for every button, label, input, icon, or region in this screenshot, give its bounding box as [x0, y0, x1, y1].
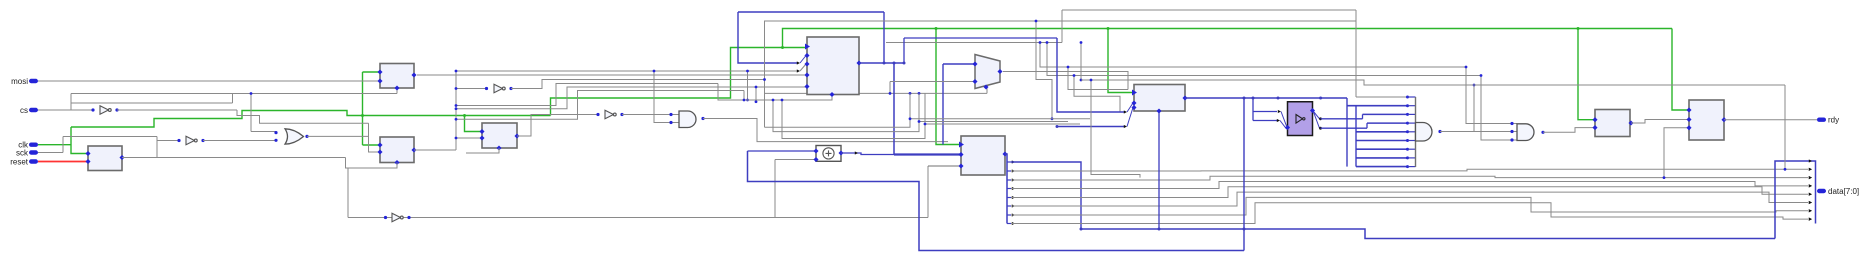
wire G4 out — [1541, 128, 1595, 134]
input port cs — [20, 106, 38, 115]
wire G4 in3 — [1480, 74, 1517, 140]
wire U1 out — [122, 157, 346, 159]
wire A1 out — [841, 151, 894, 154]
and-gate G3 — [1416, 123, 1433, 142]
wire top y21 — [763, 21, 1356, 81]
wire run y105.5 staircase — [455, 84, 718, 107]
dff U7 — [1131, 85, 1187, 114]
wire data row5 — [1011, 192, 1812, 206]
wire U4 pin2 feed — [455, 137, 482, 140]
dff U6 — [958, 136, 1007, 175]
wire G1 in1 drop — [250, 92, 253, 131]
wire U5 pin5 feed — [755, 86, 758, 104]
wire U6 out bus — [1005, 154, 1007, 224]
wire cs-up run y93.5 — [71, 93, 397, 95]
wire P1 out1 — [1314, 112, 1408, 121]
svg-text:data[7:0]: data[7:0] — [1828, 187, 1859, 196]
wire U7 out blue — [1185, 97, 1347, 100]
wire fan left bus — [1355, 106, 1357, 167]
wire U5 out blue — [738, 12, 961, 155]
wire U3 out — [414, 71, 456, 150]
wire net cs to inverter — [38, 94, 93, 111]
wire U8 out — [1631, 120, 1689, 124]
and-gate G4 — [1510, 122, 1534, 142]
wire U5 pin3 arrow — [797, 64, 806, 73]
buffer P1 — [1285, 102, 1315, 136]
wire top y42.5 — [886, 42, 1062, 44]
wire blue x1244 drop — [1243, 97, 1246, 251]
wire U9 in3 — [1663, 128, 1689, 179]
wire U7 blue in2 — [1056, 108, 1134, 129]
wire bottom up to U6 — [927, 166, 929, 218]
wire run y80-y85 — [1080, 41, 1785, 85]
input port mosi — [11, 77, 38, 86]
wire U4 en — [466, 148, 499, 153]
dff U3 — [377, 137, 416, 165]
wire data row7 — [1011, 203, 1812, 224]
wire maze x1074 — [1073, 74, 1120, 112]
wire fan row y105.7 blue — [1347, 98, 1408, 167]
svg-text:cs: cs — [20, 106, 28, 115]
inverter I5 — [384, 213, 411, 221]
wire A1 in1 blue — [748, 150, 817, 152]
dff U2 — [377, 64, 416, 91]
wire long bottom run — [348, 217, 928, 219]
wire blue loop — [748, 151, 1245, 251]
wire U9 out to rdy — [1724, 119, 1817, 121]
wire fan row y97 — [1356, 96, 1409, 99]
wire y85 drop — [1784, 85, 1787, 171]
wire maze x1040 — [1039, 41, 1466, 67]
wire top y10 — [1062, 10, 1356, 43]
wire A1 in2 — [775, 160, 816, 218]
wire data row1 — [1011, 168, 1812, 171]
svg-text:mosi: mosi — [11, 77, 28, 86]
output port data[7:0] — [1817, 187, 1859, 196]
wire M1 in1 blue — [943, 64, 975, 145]
wire y85 west drop — [1090, 79, 1140, 178]
wire top drop x1356 — [1355, 10, 1357, 97]
wire branch h103 — [71, 94, 233, 104]
svg-text:reset: reset — [10, 158, 29, 167]
wire G4 x1474 — [1473, 84, 1476, 132]
wire run y119.25 staircase — [455, 91, 744, 121]
wire U2 en drop — [396, 88, 398, 94]
wire G1 out jog — [369, 123, 381, 152]
wire maze x1047 — [1046, 41, 1481, 75]
wire G4 in1 — [1465, 66, 1517, 124]
wire collector arrows — [1809, 159, 1812, 220]
wire G1 out — [305, 135, 368, 138]
wire blue y229 — [1082, 229, 1775, 239]
wire U5 D blue feed — [738, 12, 806, 65]
wire data row0 blue — [1011, 162, 1083, 231]
wire fan rows blue — [1356, 97, 1416, 168]
wire G2 in2 — [653, 70, 679, 123]
inverter I2 — [177, 136, 204, 144]
svg-text:rdy: rdy — [1828, 116, 1839, 125]
input port sck — [16, 149, 38, 158]
wire blue collector — [1775, 161, 1816, 239]
wire G2out-y71 link — [746, 70, 749, 102]
wire I3 out jog — [511, 80, 987, 95]
wire I2 out — [203, 140, 276, 142]
wire M1 in2 — [889, 82, 975, 95]
wire maze x1068 — [1067, 66, 1128, 90]
wire sck h136 — [63, 136, 157, 138]
wire data row4 — [1011, 187, 1812, 198]
register U5 — [804, 37, 861, 97]
wire U4 out — [517, 115, 598, 137]
wire data row2 — [1011, 176, 1812, 180]
wire maze y121.5 — [772, 93, 1068, 131]
wire net clk (green) — [38, 27, 1689, 154]
or-gate G1 — [285, 129, 304, 144]
wire U2 out run — [417, 74, 807, 76]
mux M1 — [972, 55, 1002, 90]
wire net mosi — [38, 80, 380, 82]
wire U6 en feed — [928, 165, 961, 167]
dff U4 — [479, 123, 519, 151]
wire P1 in feeds — [1253, 98, 1287, 129]
wire maze y124 — [781, 93, 1080, 138]
register U9 — [1686, 100, 1726, 140]
wire U7 blue in1 — [1057, 38, 1133, 114]
dff U8 — [1592, 110, 1633, 137]
wire reset to U1 (red) — [38, 161, 88, 163]
and-gate G3 bar — [1415, 97, 1417, 167]
wire P1 out2 — [1314, 112, 1408, 130]
wire run y71 — [455, 70, 797, 73]
wire run y108.75 staircase — [455, 87, 807, 110]
wire U6 fan arrows — [1007, 160, 1015, 225]
wire M1 out run — [1003, 72, 1128, 90]
wire G2 out — [701, 117, 948, 142]
wire U7 blue top — [903, 38, 1058, 65]
wire cs jog — [237, 110, 369, 123]
wire G3 out — [1438, 130, 1517, 133]
wire maze x1036 — [1035, 20, 1054, 121]
wire U5 en feed — [718, 84, 832, 102]
wire sck up jog — [62, 137, 64, 153]
wire data row3 — [1011, 182, 1812, 189]
input port reset — [10, 158, 38, 167]
wire U3 en drop — [346, 158, 398, 218]
wire I2 feed — [157, 137, 179, 158]
wire M1 sel — [986, 88, 988, 94]
wire I1 out — [117, 109, 237, 111]
wire data row6 — [1011, 197, 1812, 215]
inverter I1 — [91, 106, 118, 114]
wire sck to U1 — [38, 152, 63, 154]
wire G1 in1 — [251, 131, 278, 142]
adder A1 — [813, 146, 843, 163]
dff U1 — [85, 146, 124, 171]
inverter I3 — [485, 84, 513, 92]
wire blue x1159 drop — [1158, 111, 1161, 231]
svg-text:sck: sck — [16, 149, 29, 158]
wire maze y118.8 — [765, 93, 1091, 127]
inverter I4 — [596, 110, 623, 118]
wire I4 out — [622, 114, 679, 116]
output port rdy — [1817, 116, 1839, 125]
inverter I3 feed — [455, 87, 486, 90]
input port clk — [18, 141, 38, 150]
and-gate G2 — [669, 111, 696, 128]
